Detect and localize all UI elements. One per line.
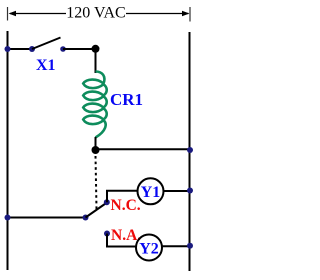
svg-text:Y1: Y1 [141, 184, 161, 201]
dimension arrow left [9, 11, 67, 16]
wire junction to right rail [96, 148, 190, 150]
dimension tick right [189, 7, 191, 22]
right rail [189, 32, 191, 271]
dimension arrow right [126, 11, 190, 16]
lamp Y2 [136, 235, 162, 261]
wire N.A. down and right to Y2 [107, 234, 136, 247]
junction node top of coil [92, 45, 100, 53]
coil CR1 [83, 72, 107, 138]
svg-text:CR1: CR1 [110, 90, 143, 109]
wire coil top lead [95, 49, 97, 73]
dimension tick left [7, 7, 9, 21]
svg-text:N.C.: N.C. [111, 197, 141, 214]
node right rail Y2 [187, 243, 193, 249]
node switch pivot [29, 46, 35, 52]
node N.C. terminal [104, 199, 110, 205]
node rail-rung1 [5, 46, 11, 52]
wire Y2 to rail [162, 245, 190, 247]
node rail-rung2 [5, 215, 11, 221]
node switch right terminal [60, 46, 66, 52]
node contact pivot [83, 215, 89, 221]
node right rail coil rung [187, 147, 193, 153]
junction node below coil [92, 146, 100, 154]
svg-text:120 VAC: 120 VAC [66, 5, 125, 22]
wire rung1 right [63, 48, 96, 50]
wire N.C. up and right to Y1 [107, 191, 138, 203]
node N.A. terminal [104, 231, 110, 237]
left rail [7, 31, 9, 270]
lamp Y1 [138, 178, 164, 204]
mechanical link dashed [96, 156, 97, 209]
node right rail Y1 [187, 188, 193, 194]
wire Y1 to rail [164, 190, 190, 192]
wire coil bottom lead [95, 137, 97, 151]
switch X1 blade [32, 38, 61, 50]
svg-text:X1: X1 [36, 57, 56, 74]
wire rung2 left [8, 217, 86, 219]
wire rung1 left [8, 48, 33, 50]
relay blade (closed to N.C.) [86, 203, 108, 218]
svg-text:Y2: Y2 [139, 241, 159, 258]
